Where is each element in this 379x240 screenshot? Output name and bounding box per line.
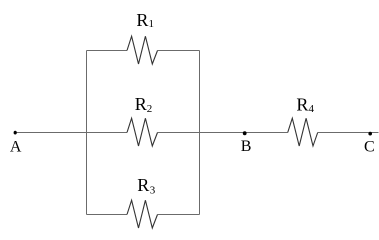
svg-text:C: C: [364, 138, 375, 155]
wire: right vertical rail: [199, 51, 201, 215]
svg-text:A: A: [10, 138, 22, 155]
svg-text:3: 3: [150, 184, 156, 196]
wire: bottom branch left lead: [87, 214, 128, 216]
svg-text:4: 4: [309, 103, 315, 115]
svg-text:R: R: [137, 175, 149, 195]
svg-text:2: 2: [147, 103, 153, 115]
svg-text:R: R: [296, 94, 308, 114]
wire: R2 right lead through node B to R4 left lead: [158, 132, 288, 134]
wire: top branch right lead: [158, 50, 200, 52]
resistor R2: [127, 118, 158, 146]
resistor R3: [127, 200, 158, 228]
svg-text:1: 1: [149, 18, 155, 30]
svg-text:R: R: [136, 10, 148, 30]
resistor R1: [127, 36, 158, 64]
wire: R4 right lead to node C and right edge: [318, 132, 379, 134]
resistor R4: [288, 118, 318, 146]
node B: [243, 131, 247, 135]
wire: top branch left lead: [87, 50, 128, 52]
node A: [14, 131, 17, 135]
wire: left vertical rail: [86, 51, 88, 215]
svg-text:B: B: [241, 138, 252, 155]
wire: bottom branch right lead: [158, 214, 200, 216]
wire: node A to R2 left lead (middle row): [17, 132, 128, 134]
node C: [368, 132, 372, 136]
svg-text:R: R: [135, 94, 147, 114]
